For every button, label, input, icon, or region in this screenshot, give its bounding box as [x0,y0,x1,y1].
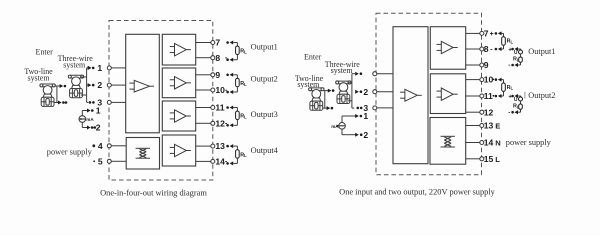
svg-text:15: 15 [484,154,494,164]
op-amp U1 [175,43,187,56]
svg-text:1: 1 [96,106,101,116]
svg-text:8: 8 [215,53,220,63]
wire U box to terminal 12 [196,122,211,124]
svg-text:RL: RL [240,49,247,55]
wire U box to terminal 11 [196,107,211,109]
svg-text:10: 10 [484,75,494,85]
output op-amp U2 box [162,68,195,98]
wire box to terminal 12 (right) [466,111,480,113]
svg-text:U: U [514,97,518,103]
terminal 5 (power) [107,159,111,163]
svg-text:2: 2 [97,80,102,90]
svg-text:One-in-four-out wiring diagram: One-in-four-out wiring diagram [100,188,207,197]
terminal 12 (right) [480,110,484,114]
op-amp U2 [175,77,187,89]
svg-text:system: system [63,61,86,70]
wire U box to terminal 8 [196,57,211,59]
wire box to terminal 15 (right) [466,158,480,160]
wire terminal 3 to A2 [377,107,393,109]
load resistor RL loop Output2 current (10-11) [495,78,498,81]
marks at terminal 1 [88,66,92,70]
svg-text:U: U [514,50,518,56]
marks at terminal 12 [230,123,234,127]
wire terminal 11 to RL3 [233,107,237,109]
svg-text:2: 2 [363,87,368,97]
svg-text:7: 7 [484,29,489,39]
svg-text:RL: RL [507,85,514,91]
wire from two-wire transmitter + lead [54,85,60,87]
svg-text:Output2: Output2 [251,74,278,83]
svg-text:-: - [490,46,493,53]
three-wire transmitter bus wire [86,68,88,103]
wire U box to terminal 14 [196,160,211,162]
wire to terminal 3 [87,101,89,103]
terminal 3 (input) [373,106,377,110]
wire RL3 to terminal 12 [236,120,238,126]
right diagram: dashed enclosure border [376,13,482,175]
output op-amp U4 box [162,135,195,166]
svg-text:2: 2 [363,130,368,140]
wire to terminal 1 [87,67,89,69]
svg-text:power supply: power supply [506,138,552,147]
wire top input terminal to A2 [377,73,393,75]
op-amp U4 [175,144,187,156]
svg-text:Enter: Enter [36,48,54,57]
wire to terminal 3 (right) [352,107,354,109]
wire box to terminal 14 (right) [466,142,480,144]
polarity marks at terminals 10 and 11 [492,79,494,81]
wire from two-wire transmitter - lead [54,102,59,104]
marks at terminal 10 [230,90,234,94]
load resistor RL2 [236,78,240,86]
terminal 9 (right) [480,63,484,67]
three-wire transmitter symbol [69,75,83,78]
svg-text:14: 14 [215,157,225,167]
wire box to terminal 13 (right) [466,125,480,127]
svg-text:Enter: Enter [304,52,322,61]
wire box to terminal 11 (right) [466,95,480,97]
terminal 2 (input) [107,83,111,87]
terminal 11 (right) [480,94,484,98]
marks at terminal 13 [226,145,229,148]
wire RL2 to terminal 10 [236,87,238,92]
svg-text:13: 13 [215,141,225,151]
amplifier block A2 (input section) [393,27,428,164]
terminal 7 (output) [211,41,215,45]
svg-text:Output1: Output1 [528,47,555,56]
wire RL4 to terminal 14 [236,158,238,163]
wire from two-wire transmitter + lead (right) [323,90,328,92]
terminal 8 (right) [480,47,484,51]
wire link on two-wire transmitter (right) [324,91,326,109]
svg-text:9: 9 [484,60,489,70]
load resistor RL1 [236,46,240,54]
svg-text:N: N [495,139,500,148]
minus mark at terminal 10 [225,89,227,91]
three-wire transmitter bus wire (right) [351,74,353,108]
svg-text:2: 2 [96,123,101,133]
dot at terminal 4 [92,144,95,147]
wire to terminal 2 [87,84,89,86]
svg-text:RL: RL [240,114,247,120]
output op-amp U3 box [162,101,195,131]
wire terminal 9 to RL2 [233,74,237,76]
top input terminal [373,72,377,76]
wire terminal 13 to RL4 [233,145,237,147]
marks at terminal 2 (right) [355,90,359,94]
power transformer T2 box [430,118,466,165]
svg-text:4: 4 [98,141,103,151]
svg-text:11: 11 [215,103,224,113]
load resistor RL4 [236,150,240,158]
svg-text:12: 12 [484,107,494,117]
separator tick [524,92,526,99]
minus mark at terminal 14 [225,161,227,163]
mA source symbol (right) [339,123,346,130]
wire link on two-wire transmitter [56,86,58,103]
svg-text:10: 10 [215,85,225,95]
two-wire transmitter symbol [41,84,55,87]
isolation transformer T1 box [126,138,159,170]
wire terminal 4 to T1 [111,145,126,147]
wire terminal 3 to A1 [111,101,125,103]
terminal 13 (right) [480,124,484,128]
svg-text:RL: RL [507,39,514,45]
wire terminal 1 to A1 [111,67,125,69]
svg-text:1: 1 [97,63,102,73]
op-amp U5 [441,41,453,53]
svg-text:14: 14 [484,138,494,148]
svg-text:system: system [331,66,354,75]
svg-text:13: 13 [484,121,494,131]
marks at terminal 14 [230,161,234,165]
svg-text:power supply: power supply [47,148,93,157]
svg-text:mA: mA [331,124,339,129]
terminal 13 (output) [211,144,215,148]
marks at terminal 8 [230,58,234,62]
svg-text:1: 1 [363,111,368,121]
svg-text:7: 7 [215,38,220,48]
wire box to terminal 9 (right) [466,64,480,66]
svg-text:mA: mA [86,117,94,122]
marks at terminal 3 [89,101,92,104]
output op-amp U6 box [430,74,465,114]
wire box to terminal 8 (right) [466,48,480,50]
minus mark at terminal 12 [225,123,227,125]
svg-text:One input and two output, 220V: One input and two output, 220V power sup… [339,188,496,197]
svg-text:Output4: Output4 [251,146,279,155]
wire U box to terminal 7 [196,42,211,44]
wire terminal 5 to T1 [111,160,126,162]
svg-text:-: - [508,110,510,116]
mA source symbol [79,116,86,123]
op-amp U6 [441,88,453,100]
terminal 8 (output) [211,56,215,60]
terminal 2 (input) [373,90,377,94]
terminal 1 (input) [107,66,111,70]
svg-text:8: 8 [484,44,489,54]
minus mark at terminal 8 [225,57,227,59]
terminal 14 (output) [211,159,215,163]
marks at top input terminal [355,72,359,76]
wire U box to terminal 10 [196,89,211,91]
svg-text:12: 12 [215,118,225,128]
svg-text:+: + [490,31,494,38]
transformer T2 symbol [441,135,455,137]
wire box to terminal 10 (right) [466,79,480,81]
marks at terminal 11 [226,106,229,109]
marks at terminal 3 [357,107,360,110]
terminal 11 (output) [211,106,215,110]
terminal 7 (right) [480,31,484,35]
wire box to terminal 7 (right) [466,32,480,34]
terminal 15 (right) [480,157,484,161]
wire from two-wire transmitter - lead (right) [323,107,327,109]
svg-text:RL: RL [240,152,247,158]
marks at terminal 2 [88,83,92,87]
left diagram: dashed enclosure border [109,21,213,181]
terminal 3 (input) [107,100,111,104]
wire to top input terminal (right) [352,73,355,75]
output op-amp U5 box [430,27,465,69]
wire U box to terminal 13 [196,145,211,147]
svg-text:11: 11 [484,91,493,101]
terminal 10 (right) [480,78,484,82]
amplifier block A1 (input section) [126,34,160,133]
op-amp inside A1 [134,80,149,92]
two-wire transmitter symbol (right) [309,88,323,91]
terminal 9 (output) [211,73,215,77]
wire RL1 to terminal 8 [236,55,238,60]
wire U box to terminal 9 [196,74,211,76]
op-amp inside A2 [405,89,417,101]
svg-text:9: 9 [215,70,220,80]
dot at terminal 5 [93,160,95,162]
svg-text:5: 5 [98,156,103,166]
svg-text:E: E [495,122,500,131]
svg-text:RL: RL [513,104,520,110]
wire terminal 7 to RL1 [233,42,237,44]
wire terminal 2 to A1 [111,84,125,86]
svg-text:Output3: Output3 [251,110,278,119]
svg-text:RL: RL [513,57,520,63]
op-amp U3 [175,110,187,122]
marks at terminal 9 [226,74,229,77]
svg-text:Output1: Output1 [251,43,278,52]
terminal 4 (power) [107,144,111,148]
transformer T1 symbol [136,147,150,149]
svg-text:system: system [28,73,51,82]
load resistor RL3 [236,111,240,119]
svg-text:-: - [508,63,510,69]
output op-amp U1 box [162,34,195,65]
terminal 12 (output) [211,121,215,125]
three-wire transmitter symbol (right) [337,81,351,84]
svg-text:L: L [495,155,500,164]
wire terminal 2 to A2 [377,91,393,93]
terminal 10 (output) [211,88,215,92]
svg-text:Output2: Output2 [528,91,555,100]
terminal 14 (right) [480,141,484,145]
svg-text:RL: RL [240,81,247,87]
marks at terminal 7 [226,41,229,44]
